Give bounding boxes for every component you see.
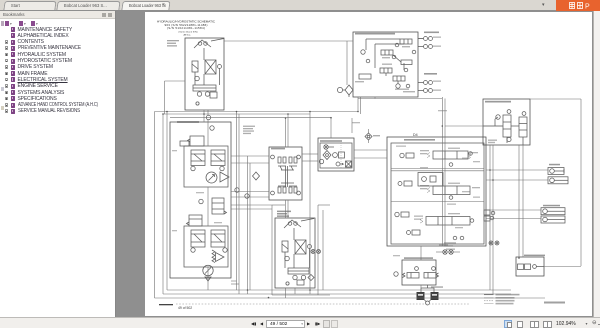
wire pilot bus 1 <box>155 111 359 113</box>
seat bar pressure release valve box <box>483 99 530 145</box>
gauge stem wire <box>343 89 345 91</box>
label seat bar valve <box>485 101 511 103</box>
hydrostatic pumps outer box <box>170 122 231 278</box>
bob-tach inlet circle <box>394 272 398 276</box>
controller port circle BR <box>297 191 301 195</box>
trunk circle mid <box>210 126 214 130</box>
quick coupler pair <box>443 250 447 254</box>
bypass valve circle <box>533 265 537 269</box>
wire lift cylinder feed upper <box>486 209 541 211</box>
charge pump symbol <box>333 153 338 158</box>
wire battery-valve to couplers top <box>418 38 424 40</box>
tilt spool <box>433 151 468 159</box>
wire motor1 to pumps trunk <box>203 110 205 122</box>
label transmission warning <box>243 126 255 127</box>
charge pump circle <box>203 265 213 275</box>
controller pilot valve bottom-right <box>289 187 292 193</box>
seat bar spool left <box>503 115 511 137</box>
wire controller down to motor right <box>285 200 287 218</box>
wire battery valve drop 2 <box>360 97 362 114</box>
motor right port circle A <box>288 222 292 226</box>
filter element box <box>346 161 352 167</box>
charge and filter outer box <box>318 138 354 171</box>
legend pilot circuits <box>484 297 494 299</box>
motor left port circle B <box>204 42 208 46</box>
motor right small circle <box>285 256 290 261</box>
wire left trunk 2 <box>162 114 164 294</box>
wire mid vertical b <box>238 114 240 294</box>
rear auxiliary coupler 2 <box>424 89 428 93</box>
svg-text:D4: D4 <box>413 133 418 137</box>
motor left bottom circle <box>196 102 199 105</box>
wire pumps to motor-right rail 2 <box>231 208 272 210</box>
label hydraulic control valve <box>404 139 435 141</box>
wire bottom bus 3 <box>155 297 546 299</box>
wire pumps right exits 3 <box>231 191 269 193</box>
svg-text:49 of 502: 49 of 502 <box>178 306 192 310</box>
wire charge to valve 2 <box>354 157 387 159</box>
bob-tach pilot circle left <box>415 267 419 271</box>
motor left relief rect <box>193 85 216 91</box>
hydrostatic motor right box <box>275 218 315 288</box>
wire right verticals 2 <box>492 145 494 294</box>
status bar <box>0 317 600 328</box>
d4 pilot diamond <box>365 133 372 140</box>
lift cylinder 1 <box>541 208 565 215</box>
schematic title text <box>157 20 216 37</box>
pump B filter triangle <box>216 253 225 262</box>
page + schematic <box>145 12 592 316</box>
battery valve spool 4 <box>380 68 392 73</box>
battery valve check circle 1 <box>361 50 365 54</box>
wire motor left exit to trunk <box>165 80 186 82</box>
wire right verticals 1 <box>489 145 491 290</box>
motor right check circle <box>308 245 312 249</box>
wire pilot bus 2 <box>163 113 310 115</box>
controller pilot valve top-right <box>289 157 292 163</box>
load check valve 3 <box>401 212 409 217</box>
pump A circle right <box>220 166 224 170</box>
wire left trunk 1 <box>154 112 156 299</box>
pump A servo right <box>211 150 225 166</box>
bob-tach cylinder left <box>417 292 425 300</box>
small toolbar icons <box>5 21 9 26</box>
controller pilot valve bottom-left <box>278 187 281 193</box>
motor right relief rect <box>288 268 309 274</box>
wire top rail right <box>358 98 442 100</box>
wire controller top drops <box>285 118 287 147</box>
motor left case vee <box>194 40 211 48</box>
battery valve spool 5 <box>359 74 371 79</box>
wire mid vertical pair d <box>247 156 249 294</box>
battery valve check circle 4 <box>412 50 416 54</box>
wire pumps bottom buses <box>231 280 237 282</box>
filter diamond <box>323 151 331 160</box>
wire mid vertical c <box>309 112 311 295</box>
bob-tach valve right <box>424 273 436 279</box>
motor right shuttle rect <box>282 241 288 252</box>
charge pump outlet triangle <box>205 277 211 281</box>
wire bottom bus 1 <box>167 289 511 291</box>
motor left inner wires <box>203 48 205 60</box>
motor right coupler pair <box>311 250 315 254</box>
aux spool labels <box>414 216 423 217</box>
wire gauge drop <box>346 41 348 85</box>
motor left port circle A <box>198 42 202 46</box>
pump B circle right <box>223 248 227 252</box>
label front auxiliary <box>424 32 439 34</box>
bypass valve element 2 <box>525 264 531 270</box>
tilt cylinder 1 <box>548 168 564 175</box>
bob-tach wedge valve box <box>402 260 436 285</box>
wire tilt cylinder feed upper <box>486 169 548 171</box>
wire lift cylinder feed lower <box>486 218 541 220</box>
wire motor right bottom exits <box>285 288 287 298</box>
lift-tilt control valve inner box <box>391 143 484 244</box>
seat bar circle 4 <box>507 137 511 141</box>
wire top rail right 2 <box>530 98 581 100</box>
controller port circle TL <box>271 155 275 159</box>
label rear auxiliary <box>424 73 437 75</box>
pumps label blobs <box>172 150 177 151</box>
battery valve check circle 2 <box>366 59 370 63</box>
battery valve spool 3 <box>401 60 412 65</box>
wire right trunk vertical <box>580 99 582 266</box>
tilt cylinder 2 <box>548 177 568 184</box>
lift spool <box>433 186 470 195</box>
load check valve 4 <box>412 230 420 235</box>
wire mid vertical a <box>236 112 238 291</box>
wire pumps trunk <box>207 120 209 146</box>
charge relief valve left <box>189 215 202 226</box>
motor right drain circle B <box>301 275 305 279</box>
pump B servo right <box>211 230 225 247</box>
motor right port circle B <box>294 222 298 226</box>
motor left small circle <box>195 76 200 81</box>
label hydrostatic motor right side <box>277 211 291 213</box>
pump B servo left <box>191 230 205 247</box>
battery valve check circle 7 <box>396 84 400 88</box>
battery valve check circle 5 <box>392 55 396 59</box>
trunk circle upper <box>206 115 210 119</box>
displacement control valve A <box>180 141 189 146</box>
battery valve spool 2 <box>381 50 393 55</box>
controller pilot valve top-left <box>278 157 281 163</box>
wire controller to charge 2 <box>302 160 318 162</box>
gauge circle <box>337 87 342 92</box>
wire tilt cylinder feed lower <box>486 179 548 181</box>
sidebar <box>0 11 116 317</box>
gauge diamond <box>345 85 353 95</box>
label tilt cylinders <box>549 164 560 166</box>
port relief coupler pair <box>489 241 493 245</box>
pump B body box <box>184 226 228 267</box>
tilt spool check circle <box>469 152 473 156</box>
bob-tach pilot circle right <box>432 267 436 271</box>
label battery valve optional <box>355 33 395 35</box>
wire pumps right exits 1 <box>231 155 269 157</box>
legend drain circuits <box>484 300 494 302</box>
label hydrostatic motor left side <box>167 40 179 41</box>
svg-text:All Gas: All Gas <box>184 33 192 36</box>
extra port label blobs <box>462 158 470 159</box>
battery valve label blobs <box>402 46 410 47</box>
aux spool <box>426 217 470 226</box>
wire battery valve drop 3 <box>374 97 376 99</box>
filter bypass circle <box>336 162 340 166</box>
battery valve inner wires <box>366 38 400 40</box>
load check valve 1 <box>406 153 414 158</box>
svg-text:P: P <box>585 4 590 11</box>
B8 inner wires <box>391 168 484 170</box>
wire bobtach coupler link <box>436 251 443 253</box>
hydrostatic motor left box <box>185 38 224 110</box>
motor right drain circle A <box>293 275 297 279</box>
seat bar wires <box>483 125 503 127</box>
motor left main rect <box>205 60 216 74</box>
bob-tach valve left <box>407 273 419 279</box>
wire controller to charge 1 <box>302 153 318 155</box>
aux spool check circle <box>470 219 474 223</box>
wire controller down 2 <box>287 200 289 218</box>
legend working circuits <box>484 294 494 296</box>
lift arm bypass valve box <box>516 257 544 276</box>
wire bobtach drop <box>420 246 422 260</box>
lift spool labels <box>420 185 429 186</box>
lift spool check circle <box>449 196 453 200</box>
seat bar circle 3 <box>522 112 526 116</box>
wire pumps right exits 2 <box>231 162 269 164</box>
motor left orifice rect <box>210 92 217 98</box>
motor right inner wires <box>293 228 295 240</box>
motor right orifice rect <box>297 280 304 285</box>
relief cartridge right <box>484 210 490 215</box>
wire d4 links <box>351 118 353 133</box>
charge drain dashed <box>340 143 342 168</box>
battery valve check circle 3 <box>395 43 399 47</box>
svg-text:(S/N 516211081-11584): (S/N 516211081-11584) <box>167 26 205 30</box>
pilot check circle <box>245 194 249 198</box>
seat bar spool right <box>519 117 527 137</box>
battery valve optional box <box>353 32 418 97</box>
wire battery valve drop 1 <box>357 97 359 112</box>
rear auxiliary coupler 1 <box>424 81 428 85</box>
seat bar circle 2 <box>507 110 511 114</box>
wire motor-left to battery-valve <box>224 40 353 42</box>
battery valve spool 6 <box>393 76 405 81</box>
main trunk vertical 1 <box>441 97 443 246</box>
motor left check circle <box>218 65 222 69</box>
label bob-tach wedge valve <box>404 257 433 259</box>
seat bar circle 1 <box>496 115 500 119</box>
controller center wires <box>285 166 287 187</box>
tilt spool labels <box>420 150 429 151</box>
wire pilot bus 3 <box>170 117 331 119</box>
controller port circle TR <box>297 155 301 159</box>
motor right main rect <box>295 240 306 254</box>
bob-tach drain circle <box>426 301 430 305</box>
controller port circle BL <box>271 191 275 195</box>
port relief labels <box>444 242 456 243</box>
front auxiliary coupler 2 <box>424 45 428 49</box>
wire bottom bus 2 <box>163 293 511 295</box>
label lift cylinders <box>543 205 560 207</box>
motor right case vee <box>284 220 301 228</box>
motor left drain circle B <box>205 92 209 96</box>
wire charge to valve 1 <box>354 149 387 151</box>
pump A servo left <box>191 150 205 166</box>
label bob-tach cylinders <box>431 286 443 288</box>
pilot check circle 2 <box>235 188 239 192</box>
label controller <box>271 148 285 150</box>
bob-tach cylinder right <box>431 292 439 300</box>
motor left drain circle A <box>197 92 201 96</box>
wire left trunk 3 <box>166 112 168 291</box>
pilot shuttle diamond <box>253 172 260 180</box>
wire pumps right exits 4 <box>231 196 269 198</box>
main trunk vertical 2 <box>444 99 446 247</box>
label seat bar shutoff <box>488 140 497 141</box>
label charge filter <box>320 140 342 142</box>
bob-tach cylinder feed lines <box>421 285 434 292</box>
wire seat bar drop 2 <box>522 145 524 257</box>
pump A body box <box>184 146 228 187</box>
battery valve spool 1 <box>400 39 412 44</box>
front auxiliary coupler 1 <box>424 37 428 41</box>
controller box <box>269 147 302 200</box>
lift cylinder 2 <box>541 216 565 223</box>
trunk circle lower <box>199 199 203 203</box>
label hydrostatic pumps <box>177 121 199 123</box>
wire pumps to motor-right rail 1 <box>231 204 272 206</box>
pump B circle left <box>191 248 195 252</box>
motor left shuttle rect <box>192 61 198 72</box>
load check valve 2 <box>404 181 412 186</box>
document number <box>544 302 565 304</box>
pump A main circle <box>206 172 217 183</box>
wire drain dashed bottom <box>176 303 470 305</box>
pump A circle left <box>191 166 195 170</box>
reservoir circle <box>319 159 323 163</box>
wire motor right side rails <box>271 205 273 295</box>
d4 diamond label <box>373 135 380 136</box>
battery valve check circle 8 <box>406 84 410 88</box>
battery valve check circle 6 <box>404 68 408 72</box>
pump A amp triangle <box>220 172 229 182</box>
legend components <box>484 303 494 305</box>
svg-text:(Some blank S/N): (Some blank S/N) <box>179 31 198 33</box>
bypass valve element 1 <box>518 264 524 270</box>
charge filter inner box <box>320 143 352 168</box>
lift-tilt control valve outer box <box>387 137 486 246</box>
motor right diamond <box>308 275 314 281</box>
breather circle <box>324 145 328 149</box>
tab bar <box>0 0 600 11</box>
footer dash <box>159 304 173 305</box>
motor right bottom circle <box>286 282 289 285</box>
charge relief valve right <box>212 198 224 214</box>
wire seat bar drop 1 <box>518 145 520 257</box>
port circles bottom <box>453 236 457 240</box>
wire charge box drop <box>330 118 332 138</box>
wire valve to seat bar <box>445 125 503 127</box>
port labels bottom <box>439 245 448 246</box>
label lift arm bypass valve <box>524 255 545 257</box>
anticavitation box <box>418 173 443 187</box>
wire bypass to right trunk <box>544 266 581 268</box>
pump B spring <box>212 250 215 263</box>
